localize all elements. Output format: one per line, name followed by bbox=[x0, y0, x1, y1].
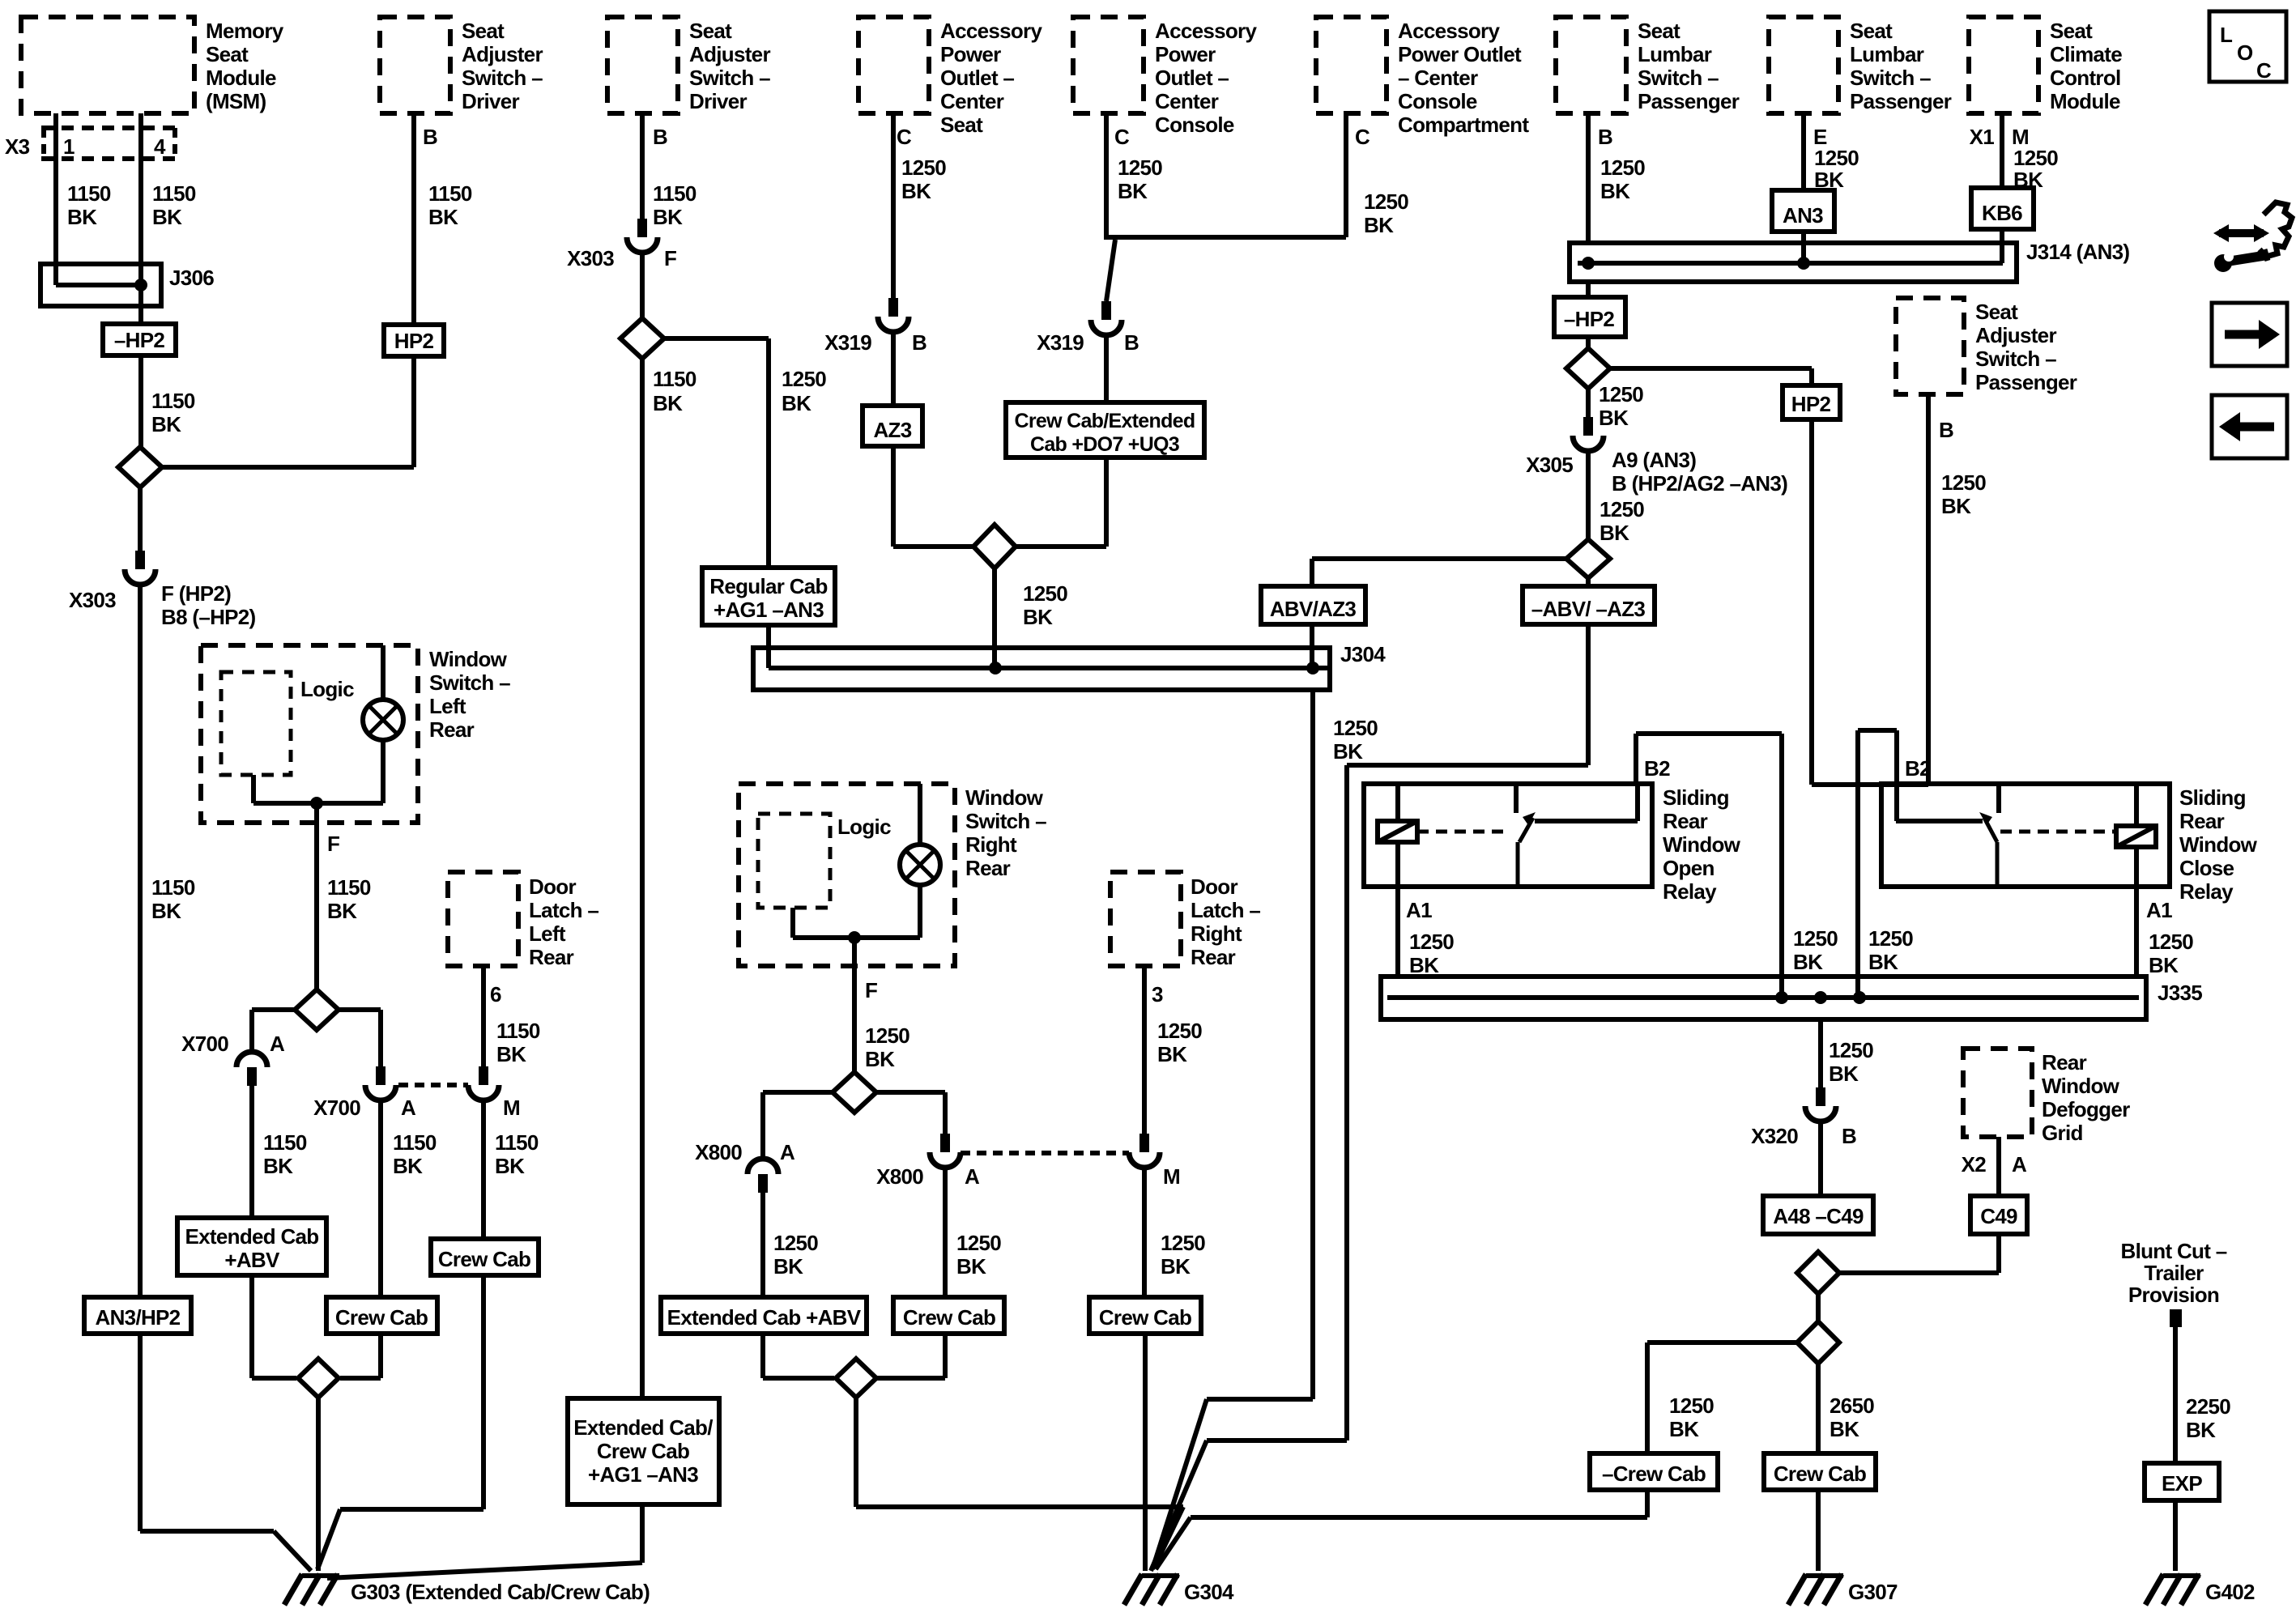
svg-text:B2: B2 bbox=[1644, 756, 1670, 781]
svg-text:Driver: Driver bbox=[462, 89, 520, 113]
svg-text:Module: Module bbox=[206, 66, 276, 90]
svg-text:M: M bbox=[503, 1096, 520, 1120]
svg-text:Window: Window bbox=[2179, 832, 2258, 857]
svg-text:Switch –: Switch – bbox=[462, 66, 543, 90]
svg-text:Right: Right bbox=[965, 832, 1017, 857]
svg-text:C49: C49 bbox=[1980, 1204, 2017, 1228]
svg-text:1250: 1250 bbox=[1600, 155, 1645, 180]
svg-text:C: C bbox=[2256, 58, 2272, 83]
svg-text:BK: BK bbox=[67, 205, 97, 229]
svg-text:Defogger: Defogger bbox=[2042, 1097, 2130, 1121]
svg-text:Trailer: Trailer bbox=[2144, 1261, 2204, 1285]
svg-text:Extended Cab/: Extended Cab/ bbox=[573, 1415, 713, 1440]
svg-text:A: A bbox=[2012, 1152, 2027, 1177]
svg-text:J304: J304 bbox=[1340, 642, 1386, 666]
svg-text:Control: Control bbox=[2050, 66, 2121, 90]
svg-text:Outlet –: Outlet – bbox=[940, 66, 1014, 90]
svg-text:Accessory: Accessory bbox=[1398, 19, 1500, 43]
svg-text:Rear: Rear bbox=[965, 856, 1011, 880]
svg-text:BK: BK bbox=[1793, 950, 1823, 974]
svg-text:BK: BK bbox=[773, 1254, 803, 1279]
svg-text:A1: A1 bbox=[2146, 898, 2172, 922]
svg-text:BK: BK bbox=[1118, 179, 1148, 203]
svg-text:BK: BK bbox=[865, 1047, 895, 1071]
svg-text:1250: 1250 bbox=[1814, 146, 1859, 170]
svg-text:+ABV: +ABV bbox=[224, 1248, 280, 1272]
svg-text:A: A bbox=[401, 1096, 416, 1120]
svg-text:BK: BK bbox=[327, 899, 357, 923]
svg-text:A9 (AN3): A9 (AN3) bbox=[1612, 448, 1696, 472]
svg-text:Window: Window bbox=[2042, 1074, 2120, 1098]
svg-text:1150: 1150 bbox=[653, 181, 696, 206]
svg-text:BK: BK bbox=[1829, 1062, 1859, 1086]
svg-text:–ABV/ –AZ3: –ABV/ –AZ3 bbox=[1531, 597, 1646, 621]
svg-text:Rear: Rear bbox=[429, 717, 475, 742]
svg-text:BK: BK bbox=[1600, 179, 1630, 203]
svg-text:J314 (AN3): J314 (AN3) bbox=[2026, 240, 2129, 264]
svg-text:Relay: Relay bbox=[2179, 879, 2234, 904]
svg-text:Switch –: Switch – bbox=[689, 66, 770, 90]
svg-text:Window: Window bbox=[965, 785, 1044, 810]
svg-text:HP2: HP2 bbox=[1791, 392, 1831, 416]
svg-text:Seat: Seat bbox=[1850, 19, 1893, 43]
svg-text:X319: X319 bbox=[824, 330, 871, 355]
svg-text:G303 (Extended Cab/Crew Cab): G303 (Extended Cab/Crew Cab) bbox=[351, 1580, 650, 1604]
svg-text:X320: X320 bbox=[1751, 1124, 1798, 1148]
svg-text:Grid: Grid bbox=[2042, 1121, 2083, 1145]
svg-text:Logic: Logic bbox=[837, 815, 891, 839]
svg-text:Seat: Seat bbox=[689, 19, 732, 43]
svg-text:BK: BK bbox=[1161, 1254, 1191, 1279]
svg-text:BK: BK bbox=[1669, 1417, 1699, 1441]
svg-text:1250: 1250 bbox=[1599, 382, 1643, 406]
svg-text:Latch –: Latch – bbox=[529, 898, 598, 922]
svg-text:F: F bbox=[865, 978, 877, 1002]
svg-text:1250: 1250 bbox=[1600, 497, 1644, 521]
svg-text:A48 –C49: A48 –C49 bbox=[1773, 1204, 1864, 1228]
svg-text:Crew Cab: Crew Cab bbox=[903, 1305, 995, 1330]
svg-text:1250: 1250 bbox=[1868, 926, 1913, 951]
svg-text:Blunt Cut –: Blunt Cut – bbox=[2121, 1239, 2227, 1263]
svg-text:1250: 1250 bbox=[901, 155, 946, 180]
svg-text:Seat: Seat bbox=[462, 19, 505, 43]
svg-text:Crew Cab: Crew Cab bbox=[335, 1305, 428, 1330]
svg-text:BK: BK bbox=[1600, 521, 1629, 545]
svg-text:B: B bbox=[423, 125, 437, 149]
svg-text:1250: 1250 bbox=[1793, 926, 1838, 951]
svg-text:BK: BK bbox=[1830, 1417, 1859, 1441]
svg-text:A1: A1 bbox=[1406, 898, 1432, 922]
svg-text:1250: 1250 bbox=[782, 367, 826, 391]
svg-text:1250: 1250 bbox=[1333, 716, 1378, 740]
svg-text:–HP2: –HP2 bbox=[1564, 307, 1614, 331]
svg-text:2650: 2650 bbox=[1830, 1394, 1874, 1418]
svg-text:B: B bbox=[912, 330, 926, 355]
svg-text:Rear: Rear bbox=[2179, 809, 2225, 833]
svg-text:Power Outlet: Power Outlet bbox=[1398, 42, 1522, 66]
svg-text:3: 3 bbox=[1152, 982, 1163, 1006]
svg-text:X800: X800 bbox=[695, 1140, 742, 1164]
svg-text:A: A bbox=[270, 1032, 285, 1056]
svg-text:Switch –: Switch – bbox=[1638, 66, 1719, 90]
svg-text:– Center: – Center bbox=[1398, 66, 1478, 90]
svg-text:Cab +DO7 +UQ3: Cab +DO7 +UQ3 bbox=[1030, 433, 1179, 456]
svg-text:1250: 1250 bbox=[1364, 189, 1408, 214]
svg-text:Left: Left bbox=[529, 921, 566, 946]
svg-text:1250: 1250 bbox=[773, 1231, 818, 1255]
svg-text:X3: X3 bbox=[5, 134, 30, 159]
svg-text:L: L bbox=[2220, 23, 2233, 47]
svg-text:Open: Open bbox=[1663, 856, 1715, 880]
svg-text:Logic: Logic bbox=[300, 677, 354, 701]
svg-text:BK: BK bbox=[1364, 213, 1394, 237]
svg-text:X700: X700 bbox=[181, 1032, 228, 1056]
svg-text:Extended Cab: Extended Cab bbox=[185, 1224, 319, 1249]
svg-text:Accessory: Accessory bbox=[940, 19, 1042, 43]
svg-text:Latch –: Latch – bbox=[1191, 898, 1260, 922]
svg-text:1250: 1250 bbox=[1829, 1038, 1873, 1062]
svg-text:F (HP2): F (HP2) bbox=[161, 581, 231, 606]
svg-text:6: 6 bbox=[490, 982, 501, 1006]
svg-text:1250: 1250 bbox=[1023, 581, 1067, 606]
svg-text:B2: B2 bbox=[1905, 756, 1931, 781]
svg-text:1150: 1150 bbox=[495, 1130, 539, 1155]
svg-text:1150: 1150 bbox=[653, 367, 696, 391]
svg-text:Close: Close bbox=[2179, 856, 2234, 880]
svg-text:Extended Cab +ABV: Extended Cab +ABV bbox=[667, 1305, 862, 1330]
svg-text:Adjuster: Adjuster bbox=[1975, 323, 2056, 347]
svg-text:BK: BK bbox=[263, 1154, 293, 1178]
svg-text:G402: G402 bbox=[2205, 1580, 2255, 1604]
svg-text:Left: Left bbox=[429, 694, 466, 718]
svg-text:Seat: Seat bbox=[940, 113, 983, 137]
svg-text:AZ3: AZ3 bbox=[873, 418, 911, 442]
svg-text:(MSM): (MSM) bbox=[206, 89, 266, 113]
svg-text:BK: BK bbox=[1868, 950, 1898, 974]
svg-text:ABV/AZ3: ABV/AZ3 bbox=[1270, 597, 1357, 621]
svg-text:–HP2: –HP2 bbox=[114, 328, 164, 352]
svg-text:BK: BK bbox=[2149, 953, 2179, 977]
svg-text:Door: Door bbox=[1191, 874, 1237, 899]
svg-text:1250: 1250 bbox=[2013, 146, 2058, 170]
svg-text:1250: 1250 bbox=[1941, 470, 1986, 495]
svg-text:BK: BK bbox=[1157, 1042, 1187, 1066]
svg-text:Rear: Rear bbox=[529, 945, 574, 969]
svg-text:BK: BK bbox=[1941, 494, 1971, 518]
svg-text:G304: G304 bbox=[1184, 1580, 1234, 1604]
svg-text:1150: 1150 bbox=[151, 875, 195, 900]
svg-text:Console: Console bbox=[1155, 113, 1234, 137]
svg-text:Window: Window bbox=[1663, 832, 1741, 857]
svg-text:J306: J306 bbox=[169, 266, 214, 290]
svg-text:F: F bbox=[327, 832, 339, 856]
svg-text:Adjuster: Adjuster bbox=[689, 42, 770, 66]
svg-text:Center: Center bbox=[940, 89, 1004, 113]
svg-text:Climate: Climate bbox=[2050, 42, 2122, 66]
svg-text:1150: 1150 bbox=[67, 181, 111, 206]
svg-text:B: B bbox=[1842, 1124, 1856, 1148]
svg-text:Switch –: Switch – bbox=[1850, 66, 1931, 90]
svg-text:4: 4 bbox=[154, 134, 166, 159]
svg-text:B (HP2/AG2 –AN3): B (HP2/AG2 –AN3) bbox=[1612, 471, 1787, 496]
svg-text:BK: BK bbox=[2186, 1418, 2216, 1442]
svg-text:BK: BK bbox=[653, 391, 683, 415]
svg-text:B: B bbox=[1939, 418, 1953, 442]
svg-text:G307: G307 bbox=[1848, 1580, 1898, 1604]
svg-text:Seat: Seat bbox=[2050, 19, 2093, 43]
svg-text:BK: BK bbox=[152, 205, 182, 229]
svg-text:X1: X1 bbox=[1970, 125, 1995, 149]
svg-text:1150: 1150 bbox=[327, 875, 371, 900]
svg-text:BK: BK bbox=[653, 205, 683, 229]
svg-text:Power: Power bbox=[940, 42, 1001, 66]
svg-text:Seat: Seat bbox=[1975, 300, 2018, 324]
svg-text:BK: BK bbox=[151, 412, 181, 436]
svg-text:X700: X700 bbox=[313, 1096, 360, 1120]
svg-text:Relay: Relay bbox=[1663, 879, 1717, 904]
svg-text:KB6: KB6 bbox=[1982, 201, 2022, 225]
svg-text:A: A bbox=[780, 1140, 795, 1164]
svg-text:X305: X305 bbox=[1526, 453, 1573, 477]
svg-text:BK: BK bbox=[496, 1042, 526, 1066]
svg-text:Switch –: Switch – bbox=[965, 809, 1046, 833]
svg-text:Console: Console bbox=[1398, 89, 1477, 113]
svg-text:Lumbar: Lumbar bbox=[1638, 42, 1712, 66]
svg-text:Memory: Memory bbox=[206, 19, 284, 43]
svg-text:Passenger: Passenger bbox=[1850, 89, 1952, 113]
svg-text:Crew Cab: Crew Cab bbox=[597, 1439, 689, 1463]
svg-text:BK: BK bbox=[901, 179, 931, 203]
svg-text:1150: 1150 bbox=[152, 181, 196, 206]
svg-text:1250: 1250 bbox=[1409, 930, 1454, 954]
svg-text:Sliding: Sliding bbox=[1663, 785, 1729, 810]
svg-text:1250: 1250 bbox=[2149, 930, 2193, 954]
svg-text:Rear: Rear bbox=[1191, 945, 1236, 969]
svg-text:Adjuster: Adjuster bbox=[462, 42, 543, 66]
svg-text:O: O bbox=[2237, 40, 2253, 65]
svg-text:1250: 1250 bbox=[865, 1023, 909, 1048]
svg-text:1: 1 bbox=[63, 134, 75, 159]
svg-text:1250: 1250 bbox=[1118, 155, 1162, 180]
svg-text:B: B bbox=[1598, 125, 1612, 149]
svg-text:1150: 1150 bbox=[151, 389, 195, 413]
svg-text:BK: BK bbox=[495, 1154, 525, 1178]
svg-text:BK: BK bbox=[956, 1254, 986, 1279]
svg-text:Switch –: Switch – bbox=[429, 670, 510, 695]
svg-text:Crew Cab: Crew Cab bbox=[438, 1247, 530, 1271]
svg-text:Center: Center bbox=[1155, 89, 1219, 113]
svg-text:X800: X800 bbox=[876, 1164, 923, 1189]
svg-text:B: B bbox=[1124, 330, 1139, 355]
svg-text:BK: BK bbox=[782, 391, 811, 415]
svg-text:1250: 1250 bbox=[1669, 1394, 1714, 1418]
svg-text:X319: X319 bbox=[1037, 330, 1084, 355]
svg-text:Crew Cab: Crew Cab bbox=[1099, 1305, 1191, 1330]
svg-text:BK: BK bbox=[1599, 406, 1629, 430]
svg-text:Crew Cab: Crew Cab bbox=[1774, 1462, 1866, 1486]
svg-text:A: A bbox=[965, 1164, 980, 1189]
svg-text:Right: Right bbox=[1191, 921, 1242, 946]
svg-text:Outlet –: Outlet – bbox=[1155, 66, 1229, 90]
svg-text:Passenger: Passenger bbox=[1638, 89, 1740, 113]
svg-text:Lumbar: Lumbar bbox=[1850, 42, 1924, 66]
svg-text:J335: J335 bbox=[2158, 981, 2202, 1005]
svg-text:Compartment: Compartment bbox=[1398, 113, 1529, 137]
svg-text:AN3: AN3 bbox=[1783, 203, 1823, 228]
svg-text:Switch –: Switch – bbox=[1975, 347, 2056, 371]
svg-text:Door: Door bbox=[529, 874, 576, 899]
svg-text:X303: X303 bbox=[69, 588, 116, 612]
svg-text:AN3/HP2: AN3/HP2 bbox=[96, 1305, 181, 1330]
svg-text:1250: 1250 bbox=[1161, 1231, 1205, 1255]
svg-text:BK: BK bbox=[1023, 605, 1053, 629]
svg-text:Seat: Seat bbox=[206, 42, 249, 66]
svg-text:HP2: HP2 bbox=[394, 329, 434, 353]
svg-text:1250: 1250 bbox=[956, 1231, 1001, 1255]
svg-text:1150: 1150 bbox=[496, 1019, 540, 1043]
svg-text:+AG1 –AN3: +AG1 –AN3 bbox=[714, 598, 824, 622]
svg-text:BK: BK bbox=[428, 205, 458, 229]
svg-text:1150: 1150 bbox=[393, 1130, 437, 1155]
svg-text:+AG1 –AN3: +AG1 –AN3 bbox=[588, 1462, 698, 1487]
svg-text:Module: Module bbox=[2050, 89, 2120, 113]
svg-text:M: M bbox=[1163, 1164, 1180, 1189]
svg-text:F: F bbox=[664, 246, 676, 270]
svg-text:C: C bbox=[897, 125, 912, 149]
svg-text:Rear: Rear bbox=[1663, 809, 1708, 833]
svg-text:Regular Cab: Regular Cab bbox=[709, 574, 827, 598]
svg-text:Driver: Driver bbox=[689, 89, 748, 113]
svg-text:Rear: Rear bbox=[2042, 1050, 2087, 1074]
svg-text:Crew Cab/Extended: Crew Cab/Extended bbox=[1015, 410, 1195, 432]
svg-text:BK: BK bbox=[1409, 953, 1439, 977]
svg-text:1150: 1150 bbox=[263, 1130, 307, 1155]
svg-text:B: B bbox=[653, 125, 667, 149]
svg-text:Sliding: Sliding bbox=[2179, 785, 2246, 810]
svg-text:Provision: Provision bbox=[2128, 1283, 2219, 1307]
svg-text:X2: X2 bbox=[1962, 1152, 1987, 1177]
svg-text:C: C bbox=[1355, 125, 1370, 149]
svg-text:EXP: EXP bbox=[2162, 1471, 2202, 1496]
svg-text:Seat: Seat bbox=[1638, 19, 1680, 43]
svg-text:Passenger: Passenger bbox=[1975, 370, 2077, 394]
svg-text:X303: X303 bbox=[567, 246, 614, 270]
svg-text:BK: BK bbox=[393, 1154, 423, 1178]
svg-text:C: C bbox=[1114, 125, 1130, 149]
svg-text:1150: 1150 bbox=[428, 181, 472, 206]
svg-text:2250: 2250 bbox=[2186, 1394, 2230, 1419]
svg-text:–Crew Cab: –Crew Cab bbox=[1602, 1462, 1706, 1486]
svg-text:B8 (–HP2): B8 (–HP2) bbox=[161, 605, 256, 629]
svg-text:BK: BK bbox=[151, 899, 181, 923]
svg-text:Power: Power bbox=[1155, 42, 1216, 66]
svg-text:Window: Window bbox=[429, 647, 508, 671]
svg-text:Accessory: Accessory bbox=[1155, 19, 1257, 43]
svg-text:BK: BK bbox=[1333, 739, 1363, 764]
svg-text:1250: 1250 bbox=[1157, 1019, 1202, 1043]
